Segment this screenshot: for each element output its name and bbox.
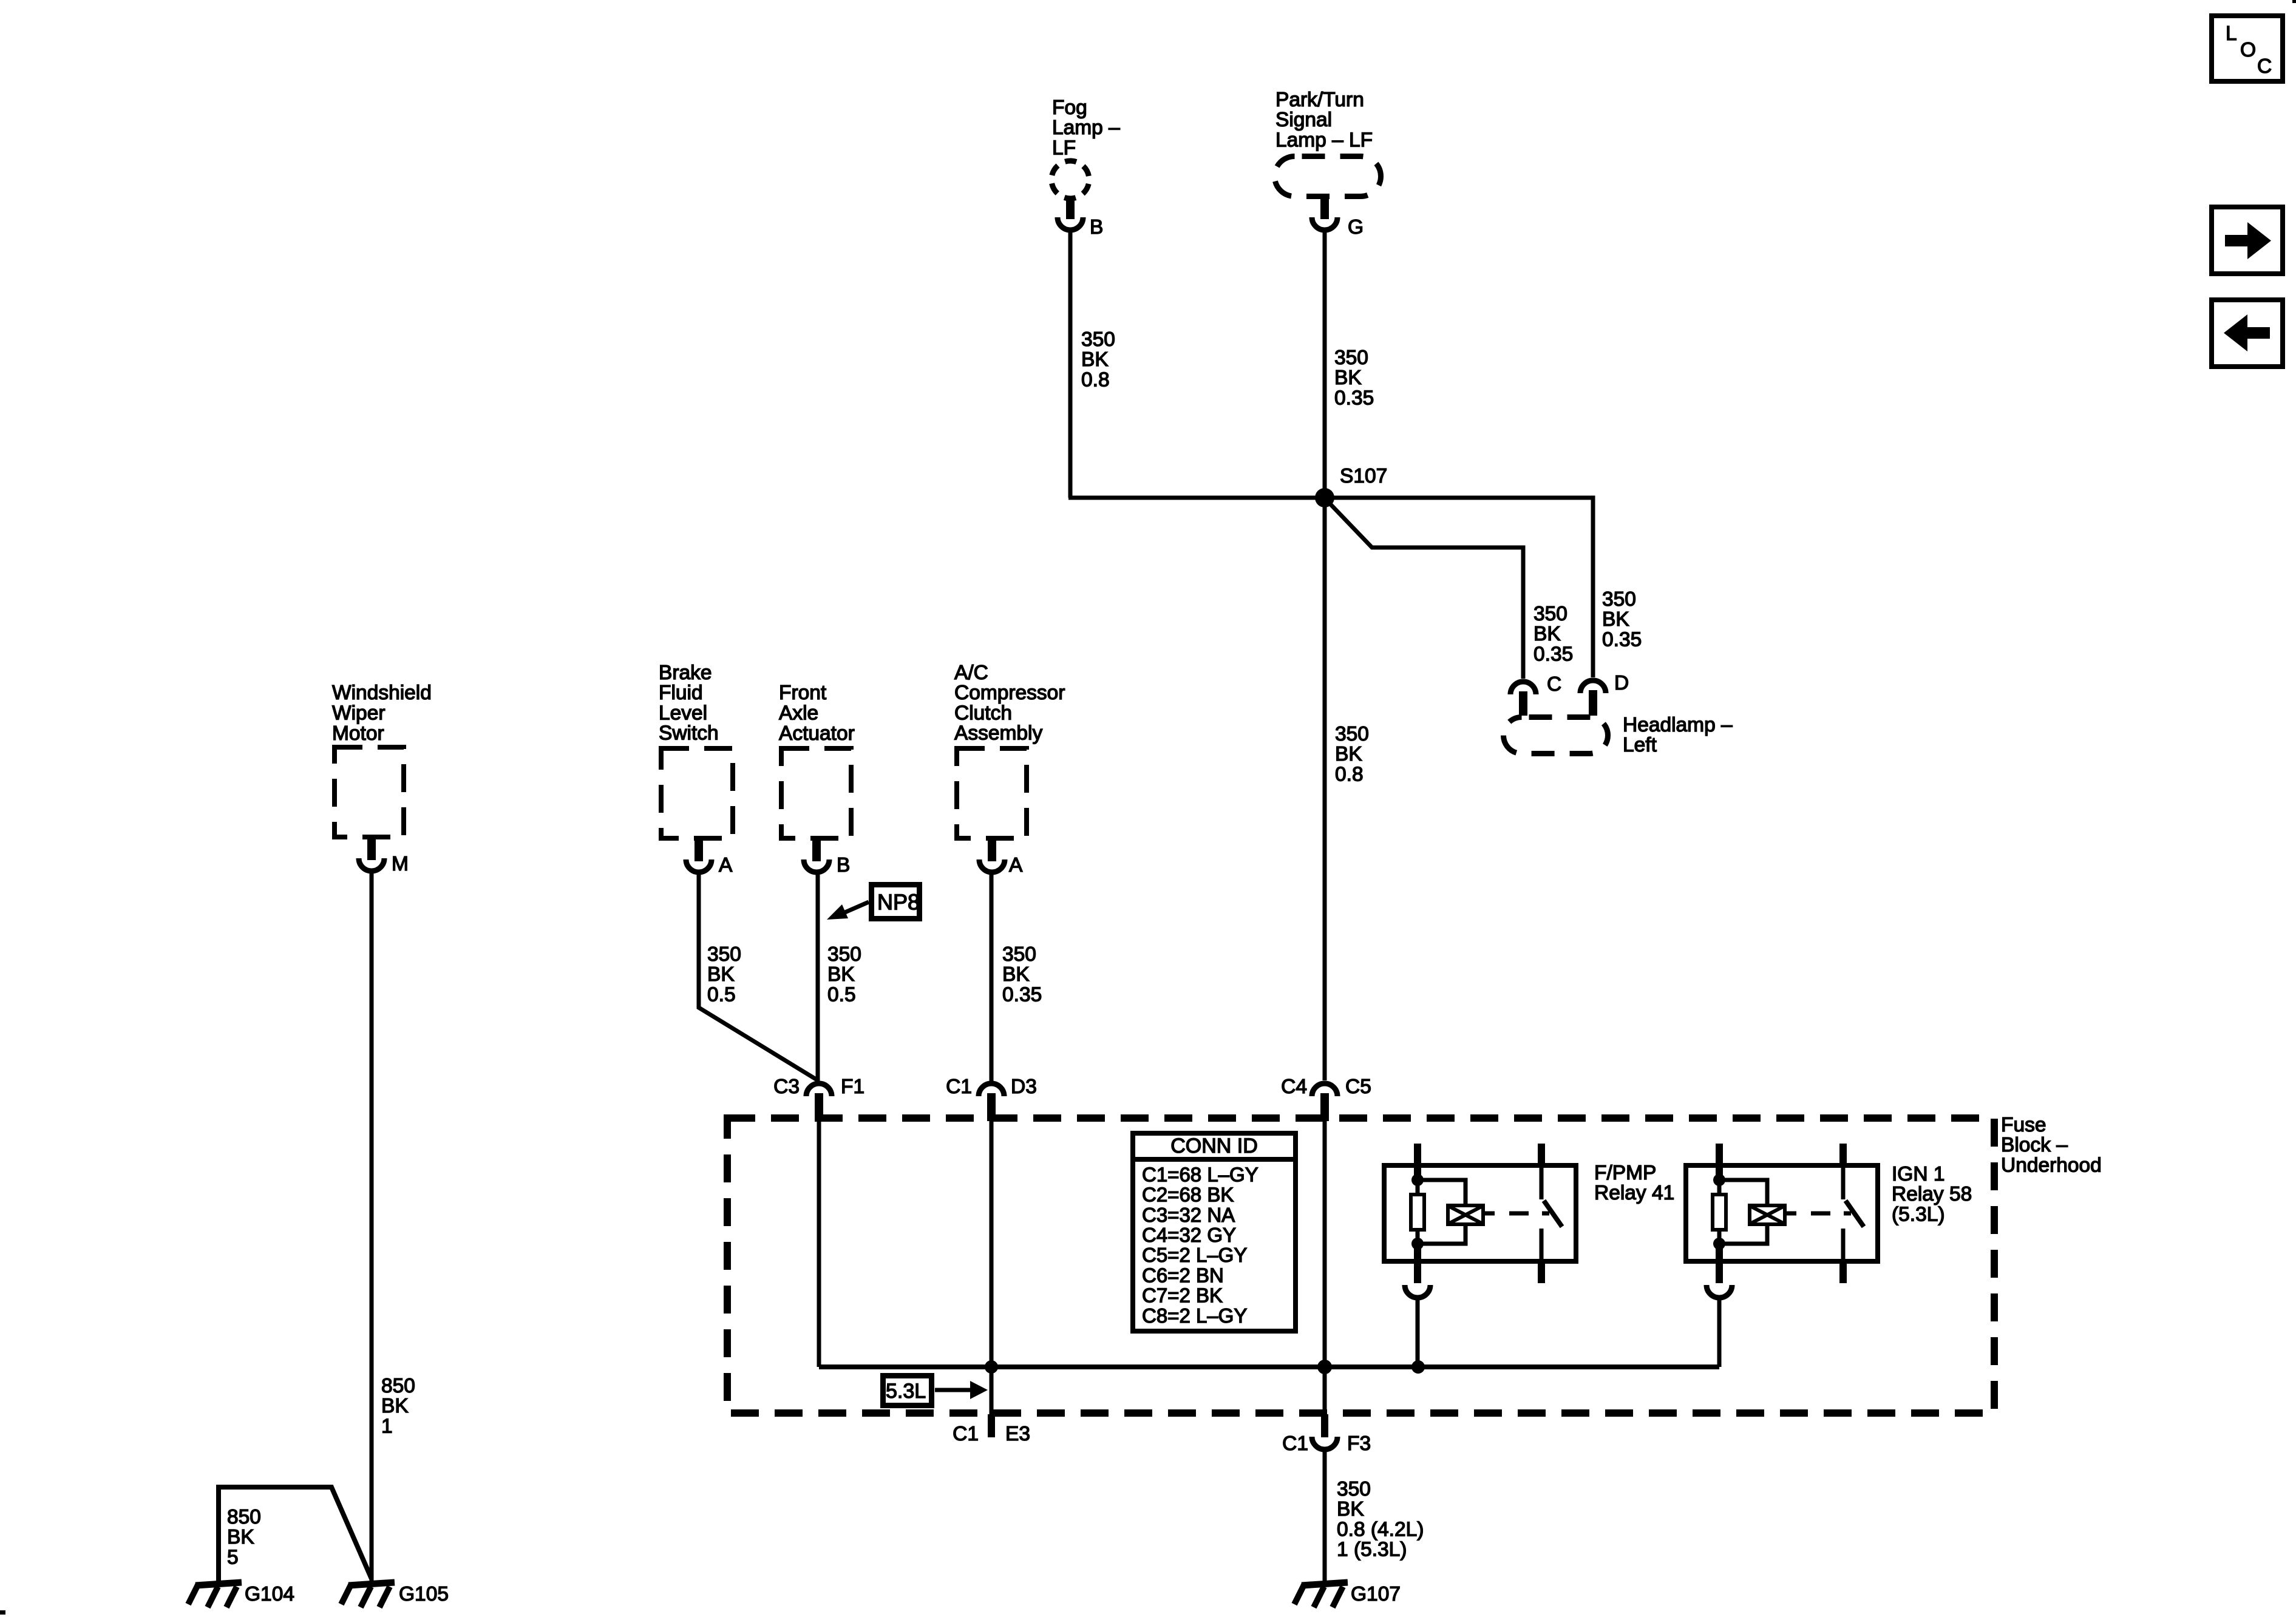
svg-text:BK: BK	[707, 963, 735, 986]
svg-text:350: 350	[1533, 603, 1567, 625]
svg-text:0.35: 0.35	[1602, 628, 1642, 651]
svg-text:C4=32 GY: C4=32 GY	[1142, 1224, 1236, 1246]
svg-text:E3: E3	[1005, 1423, 1030, 1445]
svg-text:C7=2 BK: C7=2 BK	[1142, 1284, 1223, 1307]
svg-text:C3: C3	[773, 1076, 800, 1098]
svg-text:CONN ID: CONN ID	[1170, 1134, 1258, 1158]
svg-text:C4: C4	[1281, 1076, 1307, 1098]
svg-text:Motor: Motor	[332, 722, 384, 745]
svg-text:A: A	[1009, 854, 1023, 876]
svg-text:D: D	[1614, 672, 1629, 694]
svg-text:350: 350	[1002, 943, 1036, 966]
svg-text:BK: BK	[1334, 367, 1362, 389]
svg-text:350: 350	[1334, 347, 1368, 369]
svg-text:Lamp – LF: Lamp – LF	[1275, 129, 1373, 151]
svg-text:G: G	[1348, 216, 1364, 239]
svg-text:850: 850	[227, 1506, 261, 1528]
svg-text:Relay 41: Relay 41	[1594, 1182, 1674, 1204]
svg-text:C1=68 L–GY: C1=68 L–GY	[1142, 1163, 1258, 1185]
svg-text:S107: S107	[1340, 465, 1387, 487]
svg-text:BK: BK	[827, 963, 855, 986]
svg-text:350: 350	[1335, 723, 1369, 745]
svg-text:Actuator: Actuator	[779, 722, 855, 745]
svg-text:0.8: 0.8	[1335, 763, 1364, 785]
svg-text:Relay 58: Relay 58	[1892, 1183, 1972, 1205]
svg-text:(5.3L): (5.3L)	[1892, 1203, 1945, 1225]
svg-text:A: A	[719, 854, 733, 876]
svg-text:350: 350	[1081, 328, 1115, 351]
svg-text:NP8: NP8	[877, 890, 920, 915]
svg-text:Windshield: Windshield	[332, 682, 432, 704]
svg-text:C1: C1	[953, 1423, 979, 1445]
svg-text:Headlamp –: Headlamp –	[1623, 714, 1733, 736]
svg-text:Front: Front	[779, 682, 827, 704]
svg-text:C2=68 BK: C2=68 BK	[1142, 1184, 1234, 1206]
svg-text:M: M	[392, 853, 409, 875]
svg-text:BK: BK	[381, 1395, 409, 1417]
svg-text:BK: BK	[1335, 743, 1362, 765]
svg-text:Fluid: Fluid	[659, 682, 703, 704]
svg-text:G107: G107	[1351, 1583, 1401, 1605]
svg-text:1 (5.3L): 1 (5.3L)	[1337, 1539, 1407, 1561]
svg-text:1: 1	[381, 1415, 393, 1437]
svg-text:0.35: 0.35	[1002, 983, 1042, 1006]
svg-text:O: O	[2240, 39, 2256, 61]
svg-text:Clutch: Clutch	[954, 702, 1012, 724]
svg-text:0.8: 0.8	[1081, 368, 1110, 391]
svg-text:BK: BK	[227, 1526, 254, 1548]
svg-text:C5: C5	[1345, 1076, 1371, 1098]
svg-text:C1: C1	[1282, 1432, 1308, 1455]
svg-text:5: 5	[227, 1546, 239, 1568]
svg-text:F3: F3	[1347, 1432, 1371, 1455]
svg-text:B: B	[1090, 216, 1103, 239]
svg-text:BK: BK	[1337, 1498, 1364, 1520]
svg-text:Assembly: Assembly	[954, 722, 1042, 745]
svg-text:5.3L: 5.3L	[886, 1380, 926, 1403]
svg-text:F1: F1	[841, 1076, 864, 1098]
svg-text:C5=2 L–GY: C5=2 L–GY	[1142, 1244, 1247, 1266]
svg-text:C1: C1	[946, 1076, 972, 1098]
svg-text:G104: G104	[245, 1583, 294, 1605]
svg-text:LF: LF	[1052, 137, 1076, 159]
svg-text:0.8 (4.2L): 0.8 (4.2L)	[1337, 1518, 1424, 1541]
svg-text:0.35: 0.35	[1533, 643, 1573, 665]
svg-text:Level: Level	[659, 702, 707, 724]
svg-text:350: 350	[827, 943, 861, 966]
svg-text:350: 350	[1337, 1478, 1371, 1500]
svg-text:350: 350	[707, 943, 741, 966]
svg-text:C3=32 NA: C3=32 NA	[1142, 1204, 1235, 1226]
svg-text:BK: BK	[1002, 963, 1030, 986]
svg-text:B: B	[837, 854, 850, 876]
svg-text:A/C: A/C	[954, 662, 988, 684]
svg-text:Underhood: Underhood	[2001, 1154, 2102, 1176]
svg-text:C8=2 L–GY: C8=2 L–GY	[1142, 1304, 1247, 1327]
svg-text:Compressor: Compressor	[954, 682, 1065, 704]
svg-text:0.5: 0.5	[827, 983, 856, 1006]
svg-text:Lamp –: Lamp –	[1052, 117, 1120, 139]
svg-text:Wiper: Wiper	[332, 702, 385, 725]
svg-text:Park/Turn: Park/Turn	[1275, 89, 1364, 111]
svg-text:F/PMP: F/PMP	[1594, 1162, 1656, 1184]
svg-text:Fuse: Fuse	[2001, 1114, 2046, 1136]
svg-text:D3: D3	[1011, 1076, 1037, 1098]
svg-text:850: 850	[381, 1375, 415, 1397]
svg-text:BK: BK	[1081, 348, 1109, 371]
svg-text:G105: G105	[399, 1583, 449, 1605]
svg-text:Axle: Axle	[779, 702, 818, 725]
svg-text:Switch: Switch	[659, 722, 719, 745]
svg-text:Brake: Brake	[659, 662, 712, 684]
svg-text:L: L	[2226, 22, 2237, 45]
svg-text:Left: Left	[1623, 734, 1657, 756]
svg-text:Block –: Block –	[2001, 1134, 2068, 1156]
svg-text:IGN 1: IGN 1	[1892, 1163, 1945, 1185]
svg-text:C: C	[1547, 673, 1561, 696]
svg-text:C6=2 BN: C6=2 BN	[1142, 1264, 1224, 1286]
svg-text:0.5: 0.5	[707, 983, 736, 1006]
svg-text:BK: BK	[1533, 623, 1561, 645]
svg-text:0.35: 0.35	[1334, 387, 1374, 409]
svg-text:BK: BK	[1602, 608, 1629, 631]
svg-text:Fog: Fog	[1052, 97, 1087, 119]
svg-text:Signal: Signal	[1275, 109, 1332, 131]
svg-text:C: C	[2257, 55, 2272, 78]
svg-text:350: 350	[1602, 588, 1636, 611]
